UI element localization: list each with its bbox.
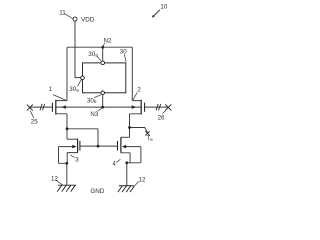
svg-text:30: 30: [120, 49, 127, 56]
svg-text:N2: N2: [104, 38, 112, 45]
svg-text:30a: 30a: [69, 86, 79, 94]
svg-text:VDD: VDD: [81, 17, 95, 24]
svg-text:26: 26: [158, 114, 165, 121]
svg-text:12: 12: [51, 175, 58, 182]
svg-text:Te: Te: [146, 135, 153, 143]
svg-text:11: 11: [59, 10, 66, 17]
svg-text:12: 12: [139, 176, 146, 183]
svg-text:N3: N3: [90, 111, 98, 118]
svg-text:30b: 30b: [87, 97, 97, 105]
svg-text:30a: 30a: [88, 51, 98, 59]
svg-text:10: 10: [160, 4, 167, 11]
svg-text:4: 4: [112, 160, 116, 167]
svg-text:25: 25: [31, 118, 38, 125]
svg-text:2: 2: [137, 87, 141, 94]
svg-text:GND: GND: [90, 188, 104, 195]
svg-text:3: 3: [75, 157, 79, 164]
svg-text:1: 1: [49, 86, 53, 93]
